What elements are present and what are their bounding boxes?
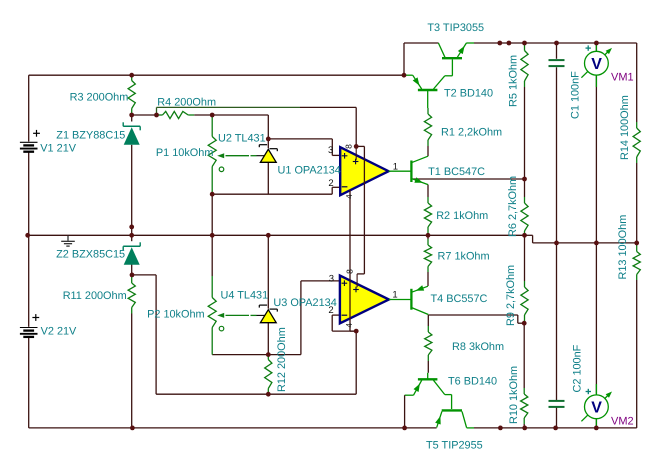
svg-text:T5 TIP2955: T5 TIP2955 — [426, 440, 483, 452]
svg-text:T4 BC557C: T4 BC557C — [431, 293, 488, 305]
svg-text:V: V — [591, 400, 602, 417]
svg-text:3: 3 — [328, 145, 333, 156]
svg-text:R3 200Ohm: R3 200Ohm — [70, 92, 129, 104]
svg-text:R5 1kOhm: R5 1kOhm — [508, 55, 520, 107]
svg-text:4: 4 — [344, 194, 354, 199]
svg-text:R2 1kOhm: R2 1kOhm — [436, 210, 488, 222]
svg-text:P1 10kOhm: P1 10kOhm — [156, 147, 214, 159]
svg-text:T2 BD140: T2 BD140 — [444, 88, 493, 100]
svg-text:VM1: VM1 — [611, 71, 634, 83]
svg-text:Z2 BZX85C15: Z2 BZX85C15 — [56, 249, 125, 261]
svg-text:U2 TL431: U2 TL431 — [218, 133, 266, 145]
svg-text:4: 4 — [344, 323, 354, 328]
svg-text:C2 100nF: C2 100nF — [572, 344, 584, 392]
svg-text:VM2: VM2 — [611, 416, 634, 428]
svg-text:8: 8 — [345, 269, 355, 274]
svg-text:C1 100nF: C1 100nF — [570, 71, 582, 119]
svg-text:R4 200Ohm: R4 200Ohm — [157, 97, 216, 109]
svg-text:R13 100Ohm: R13 100Ohm — [617, 215, 629, 280]
svg-text:R12 200Ohm: R12 200Ohm — [276, 327, 288, 392]
svg-text:V2 21V: V2 21V — [41, 326, 77, 338]
svg-text:T3 TIP3055: T3 TIP3055 — [427, 22, 484, 34]
svg-text:T1 BC547C: T1 BC547C — [428, 166, 485, 178]
svg-text:R1 2,2kOhm: R1 2,2kOhm — [441, 127, 502, 139]
svg-text:R10 1kOhm: R10 1kOhm — [508, 366, 520, 424]
svg-text:U1 OPA2134: U1 OPA2134 — [278, 165, 341, 177]
svg-text:V: V — [591, 56, 602, 73]
svg-text:R8 3kOhm: R8 3kOhm — [452, 341, 504, 353]
svg-text:R7 1kOhm: R7 1kOhm — [438, 251, 490, 263]
svg-text:R11 200Ohm: R11 200Ohm — [63, 290, 127, 302]
svg-text:1: 1 — [392, 289, 397, 300]
svg-text:T6 BD140: T6 BD140 — [448, 376, 497, 388]
svg-text:8: 8 — [344, 144, 354, 149]
svg-text:U4 TL431: U4 TL431 — [221, 290, 269, 302]
svg-text:2: 2 — [328, 178, 333, 189]
svg-text:R14 100Ohm: R14 100Ohm — [619, 95, 631, 160]
svg-text:U3 OPA2134: U3 OPA2134 — [273, 297, 336, 309]
svg-text:Z1 BZY88C15: Z1 BZY88C15 — [56, 130, 125, 142]
svg-text:V1 21V: V1 21V — [40, 143, 76, 155]
svg-text:R9 2,7kOhm: R9 2,7kOhm — [505, 265, 517, 326]
svg-text:R6 2,7kOhm: R6 2,7kOhm — [507, 176, 519, 237]
svg-text:P2 10kOhm: P2 10kOhm — [147, 309, 205, 321]
svg-text:3: 3 — [329, 274, 334, 285]
